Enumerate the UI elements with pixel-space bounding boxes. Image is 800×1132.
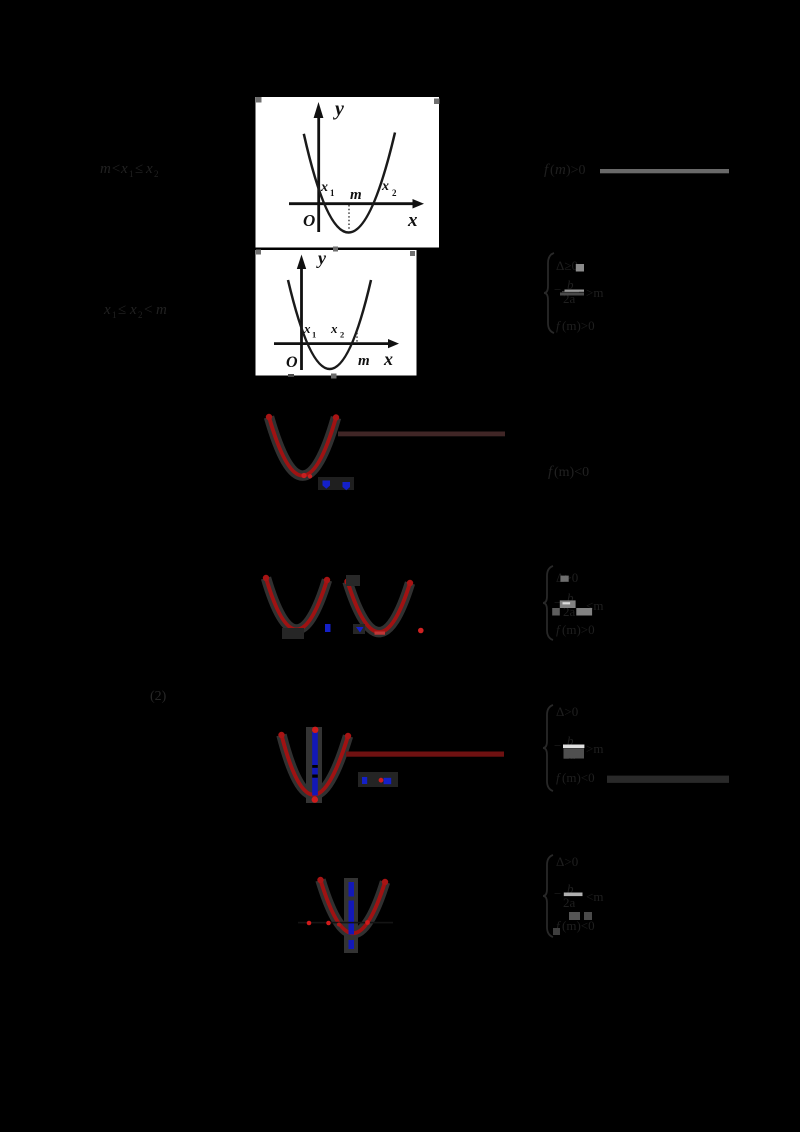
red parabola row 3 (282, 735, 349, 795)
faint axis row 4 (298, 922, 393, 924)
gray text shadow row 3 (358, 772, 398, 787)
svg-text:(m)>0: (m)>0 (562, 622, 595, 637)
red parabola row 2 right halo (348, 582, 411, 633)
svg-text:≤: ≤ (118, 302, 126, 318)
figure box 2 parabola (288, 280, 371, 369)
selection handle box2 top-right (410, 251, 415, 256)
dark red line row 3 (346, 752, 504, 757)
gray text shadow row 1 (318, 477, 354, 490)
long faint bar row C (607, 776, 729, 783)
light fraction bar row A (565, 290, 585, 292)
svg-text:O: O (286, 354, 298, 371)
svg-text:Δ≥0: Δ≥0 (556, 258, 578, 273)
figure box 1 parabola (304, 133, 395, 233)
red parabola row 2 right (348, 582, 411, 633)
svg-text:1: 1 (129, 169, 134, 179)
svg-text:(m)<0: (m)<0 (554, 465, 589, 480)
figure box 1 y-axis arrowhead (314, 102, 324, 118)
blue mark row 2 a (325, 624, 331, 632)
gray text shadows row 2 (346, 575, 360, 586)
light fraction bar row D (564, 893, 583, 897)
svg-text:−: − (554, 886, 561, 901)
svg-text:m: m (555, 162, 566, 178)
light pieces row B (560, 576, 568, 582)
svg-text:≤: ≤ (135, 161, 143, 177)
svg-text:x: x (320, 180, 328, 195)
svg-text:x: x (303, 321, 311, 336)
light block row A (576, 264, 584, 272)
red dots row 4 (307, 921, 312, 926)
figure box 1 x-axis arrowhead (413, 199, 425, 209)
svg-text:m: m (358, 353, 370, 369)
figure box 2 background (256, 250, 417, 376)
blue mark row 3 a (362, 777, 367, 784)
figure box 1 dotted line at m (348, 205, 350, 230)
figure box 2 x-axis (274, 342, 390, 345)
red dot row 3 top (312, 727, 318, 733)
svg-text:m<x: m<x (100, 161, 128, 177)
condition system D (rows at y 855-935) (543, 854, 603, 937)
svg-text:)>0: )>0 (566, 163, 586, 178)
red dot row 3 bottom (312, 796, 318, 802)
gray halo behind blue bar row 4 (344, 878, 358, 953)
svg-text:Δ>0: Δ>0 (556, 704, 578, 719)
svg-text:2: 2 (392, 188, 397, 198)
red parabola row 3 halo (282, 735, 349, 795)
svg-text:2: 2 (340, 330, 344, 340)
red parabola row 4 halo (321, 880, 386, 933)
svg-text:x: x (407, 210, 418, 231)
svg-text:O: O (303, 211, 315, 230)
selection handle box2 bottom-center (331, 374, 337, 379)
figure box 1 background (256, 97, 440, 248)
svg-text:x: x (145, 161, 153, 177)
blue mark row 2 triangle (356, 627, 364, 633)
figure box 2 dotted line at m (356, 329, 358, 343)
selection handle box2 top-left (256, 250, 261, 255)
svg-text:<: < (144, 302, 152, 318)
figure box 2 y-axis arrowhead (297, 255, 306, 270)
svg-text:2: 2 (138, 310, 143, 320)
red parabola row 4 (321, 880, 386, 933)
light fraction bar row C (563, 745, 584, 749)
svg-text:Δ>0: Δ>0 (556, 854, 578, 869)
svg-text:1: 1 (312, 330, 316, 340)
svg-text:y: y (316, 248, 327, 268)
dark red line row 1 (338, 432, 505, 437)
svg-text:x: x (103, 302, 111, 318)
faint label x1&lt;=x2&lt;m (103, 302, 167, 320)
condition system C (rows at y 705-790) (543, 704, 603, 791)
gray divider bar top right (600, 169, 729, 173)
figure box 1 x-axis (289, 202, 414, 205)
red dot row 3 small (379, 778, 384, 783)
svg-text:x: x (129, 302, 137, 318)
svg-text:1: 1 (112, 310, 117, 320)
svg-text:(2): (2) (150, 689, 167, 704)
selection handle box1 top-right (434, 99, 440, 105)
svg-text:−: − (554, 738, 561, 753)
figure box 2 y-axis (300, 265, 303, 370)
svg-text:m: m (156, 302, 167, 318)
red parabola row 1 arrow tips (266, 414, 272, 420)
blue mark row 1 b (343, 482, 351, 490)
svg-text:>m: >m (586, 285, 603, 300)
blue dashed bar row 4 (349, 882, 355, 897)
condition system A (rows at y 250-335) (544, 253, 603, 333)
svg-text:2a: 2a (563, 895, 576, 910)
svg-text:2: 2 (154, 169, 159, 179)
svg-text:x: x (383, 349, 393, 369)
svg-text:(m)<0: (m)<0 (562, 770, 595, 785)
red parabola row 1 (269, 417, 336, 476)
red dash row 2 (375, 632, 386, 635)
red parabola row 2 left halo (266, 578, 327, 630)
figure box 1 y-axis (317, 114, 320, 232)
blue mark row 3 b (384, 778, 392, 784)
red parabola row 2 left (266, 578, 327, 630)
svg-text:(m)<0: (m)<0 (562, 918, 595, 933)
blue vertical bar row 3 (312, 732, 318, 796)
svg-text:y: y (333, 98, 344, 120)
svg-text:x: x (381, 179, 389, 194)
svg-text:(m)>0: (m)>0 (562, 318, 595, 333)
svg-text:m: m (350, 187, 362, 203)
faint label m&lt;x1&lt;=x2 (100, 161, 159, 179)
selection handle box1 bottom-center (333, 247, 338, 252)
gray halo behind blue bar row 3 (306, 727, 322, 803)
svg-text:>m: >m (586, 741, 603, 756)
figure box 2 x-axis arrowhead (388, 339, 399, 348)
condition system B (rows at y 565-640) (543, 566, 603, 640)
svg-text:<m: <m (586, 889, 603, 904)
selection handle box1 top-left (256, 97, 262, 103)
blue mark row 1 a (323, 481, 331, 489)
red dot row 2 (418, 628, 424, 634)
red parabola row 1 halo (269, 417, 336, 476)
svg-text:x: x (330, 321, 338, 336)
svg-text:1: 1 (330, 188, 335, 198)
